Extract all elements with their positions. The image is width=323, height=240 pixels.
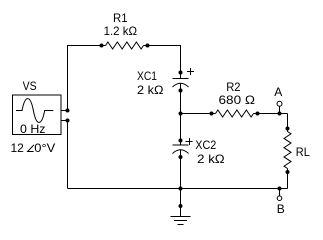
junction dot RL bottom	[286, 170, 290, 174]
angle symbol	[28, 145, 34, 152]
plus sign XC2	[186, 138, 193, 145]
resistor R2	[216, 110, 254, 117]
wire VS bottom terminal stub	[61, 120, 68, 122]
junction dot ground rail	[179, 187, 183, 191]
junction dot XC2 bottom	[179, 155, 183, 159]
node B terminal circle	[277, 196, 282, 201]
svg-text:VS: VS	[23, 79, 37, 93]
svg-text:2 kΩ: 2 kΩ	[197, 152, 225, 166]
wire top rail left segment	[68, 45, 106, 47]
wire middle rail left segment	[181, 113, 216, 115]
junction dot VS bottom terminal	[66, 119, 70, 123]
wire XC1 top lead	[180, 45, 182, 79]
junction dot R1 left	[100, 44, 104, 48]
wire left vertical upper	[67, 45, 69, 111]
svg-text:680 Ω: 680 Ω	[219, 93, 256, 107]
junction dot node B	[278, 187, 282, 191]
svg-text:B: B	[277, 202, 285, 216]
node A terminal circle	[277, 101, 282, 106]
wire top rail right segment	[144, 45, 181, 47]
svg-text:0 Hz: 0 Hz	[20, 122, 46, 136]
resistor R1	[106, 42, 144, 49]
junction dot R1 right	[146, 44, 150, 48]
junction dot node A	[278, 112, 282, 116]
svg-text:R2: R2	[226, 80, 241, 94]
junction dot XC1 top	[179, 71, 183, 75]
svg-text:XC1: XC1	[137, 69, 157, 83]
source VS box	[13, 95, 62, 135]
svg-text:RL: RL	[296, 145, 310, 159]
wire right vertical to RL	[287, 114, 289, 132]
ground	[171, 217, 191, 225]
svg-text:12: 12	[11, 141, 25, 155]
wire VS top terminal stub	[61, 110, 68, 112]
capacitor XC1	[173, 79, 189, 88]
wire XC2 bottom lead	[180, 150, 182, 189]
svg-text:1.2 kΩ: 1.2 kΩ	[104, 24, 138, 38]
svg-text:R1: R1	[113, 11, 128, 25]
wire middle rail right segment	[254, 113, 288, 115]
wire XC2 top lead	[180, 114, 182, 146]
svg-text:XC2: XC2	[195, 138, 216, 152]
wire XC1 bottom lead	[180, 84, 182, 114]
resistor RL	[284, 132, 291, 169]
junction dot XC1 bottom	[179, 89, 183, 93]
wire node B stub	[279, 189, 281, 196]
wire RL bottom lead	[287, 169, 289, 189]
wire bottom rail	[68, 188, 288, 190]
plus sign XC1	[187, 68, 194, 75]
wire left vertical lower	[67, 121, 69, 189]
capacitor XC2	[173, 145, 189, 154]
junction dot R2 right	[256, 112, 260, 116]
sine wave symbol	[16, 99, 53, 123]
svg-text:0°V: 0°V	[34, 141, 55, 155]
svg-text:A: A	[274, 85, 282, 99]
junction dot middle rail at XC branch	[179, 112, 183, 116]
svg-text:2 kΩ: 2 kΩ	[137, 83, 164, 97]
junction dot R2 left	[210, 112, 214, 116]
ground lead	[180, 189, 182, 217]
wire node A stub	[279, 106, 281, 113]
junction dot RL top	[286, 127, 290, 131]
junction dot ground pin	[179, 204, 183, 208]
junction dot XC2 top	[179, 139, 183, 143]
junction dot VS top terminal	[66, 109, 70, 113]
